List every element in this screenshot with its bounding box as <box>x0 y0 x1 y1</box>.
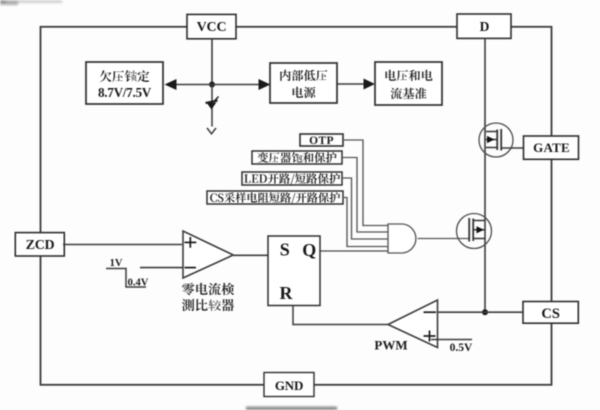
wire regulator to reference arrow <box>337 83 365 85</box>
svg-text:S: S <box>280 240 290 260</box>
wire D rail <box>484 38 486 312</box>
pin GATE <box>524 136 579 159</box>
ground arrow <box>207 128 216 134</box>
wire OTP to gate <box>343 140 388 226</box>
block V/I reference 电压和电流基准 <box>375 62 442 105</box>
wire Q output to gate <box>320 250 388 252</box>
node VCC junction <box>209 82 215 88</box>
svg-text:GATE: GATE <box>533 140 570 155</box>
svg-text:PWM: PWM <box>374 338 407 353</box>
wire arrow to regulator <box>212 84 260 86</box>
wire 0.5V reference <box>431 339 472 341</box>
svg-text:8.7V/7.5V: 8.7V/7.5V <box>98 85 152 100</box>
svg-text:GND: GND <box>275 378 303 393</box>
caption sliver (cropped figure caption) <box>246 407 337 410</box>
scan artifact top-left <box>0 0 62 5</box>
pin D <box>457 14 511 38</box>
wire outer frame rails (VCC/GND/pin bus) <box>41 27 552 385</box>
pin ZCD <box>15 233 64 256</box>
wire gate output to M2 gate <box>418 238 470 240</box>
svg-text:0.4V: 0.4V <box>128 278 149 289</box>
node CS junction <box>482 309 488 315</box>
block OTP <box>300 134 343 146</box>
svg-text:CS: CS <box>541 306 560 322</box>
wire ZCD to comparator + <box>63 244 182 246</box>
pin CS <box>523 302 578 324</box>
label 零电流检测比较器 <box>182 283 234 295</box>
wire CS-protect to gate <box>343 198 388 247</box>
transistor M1 (upper MOSFET) <box>479 123 513 157</box>
svg-text:1V: 1V <box>110 258 123 269</box>
gate U1 (AND driver) <box>388 224 416 253</box>
block UVLO 欠压锁定 8.7V/7.5V <box>86 62 163 104</box>
flip-flop U3 SR latch <box>268 236 320 306</box>
svg-text:ZCD: ZCD <box>26 238 55 253</box>
wire arrow to UVLO <box>176 84 212 86</box>
svg-text:0.5V: 0.5V <box>450 342 473 354</box>
pin VCC <box>187 14 236 38</box>
svg-text:OTP: OTP <box>309 135 334 147</box>
block LED开路/短路保护 <box>242 172 342 185</box>
wire LED-protect to gate <box>342 178 388 239</box>
wire PWM out to R input <box>293 306 389 325</box>
block 变压器饱和保护 <box>252 151 342 164</box>
transistor M2 (lower MOSFET) <box>457 214 492 249</box>
pin GND <box>264 373 314 397</box>
svg-text:Q: Q <box>302 240 316 260</box>
svg-text:R: R <box>280 283 294 303</box>
svg-text:VCC: VCC <box>197 20 227 35</box>
wire M1 gate to GATE pin <box>501 147 526 149</box>
op-amp U2 ZCD comparator <box>183 231 233 278</box>
wire CS sense to - input <box>438 311 524 313</box>
block CS采样电阻短路/开路保护 <box>207 191 343 204</box>
waveform 1V/0.4V threshold <box>106 269 146 288</box>
wire VCC stem <box>211 39 213 85</box>
wire comparator out to S <box>233 254 268 256</box>
zener diode (UVLO reference) <box>211 85 213 127</box>
wire comparator - input <box>140 267 183 269</box>
wire transformer-protect to gate <box>342 158 388 233</box>
svg-text:D: D <box>480 19 490 34</box>
block internal LDO 内部低压电源 <box>270 63 337 103</box>
op-amp U4 PWM comparator <box>388 300 438 348</box>
